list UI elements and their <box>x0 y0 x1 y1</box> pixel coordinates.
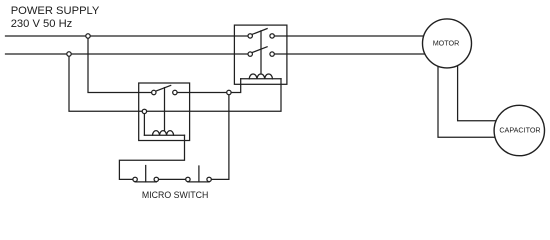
micro switch S1 contact bar <box>135 181 156 183</box>
svg-text:230 V 50 Hz: 230 V 50 Hz <box>11 18 73 30</box>
micro switch S1 plunger <box>145 166 147 182</box>
wire node J2 down, along and up to contactor K1 coil right terminal <box>69 54 281 111</box>
wire L2 neutral line right segment to motor <box>274 53 425 55</box>
contactor K1 coil baseline <box>241 78 281 80</box>
contactor K1 mechanical link <box>260 31 262 74</box>
wire between micro switch S1 and micro switch S2 <box>159 178 186 180</box>
motor M circle <box>423 19 472 68</box>
relay K2 coil baseline <box>144 134 184 136</box>
contactor K1 coil <box>249 74 272 79</box>
svg-text:CAPACITOR: CAPACITOR <box>499 126 540 135</box>
node J1 junction on L1 <box>86 34 90 38</box>
node J4 junction <box>142 109 146 113</box>
wire node J1 down and right to relay K2 contact left terminal <box>88 36 152 93</box>
node J2 junction on L2 <box>67 52 71 56</box>
wire motor to capacitor inner <box>458 66 496 121</box>
relay K2 box <box>139 83 190 141</box>
wire node J4 down to relay K2 coil left terminal <box>143 111 145 135</box>
wire L2 neutral line left segment <box>6 53 249 55</box>
micro switch S1 right terminal <box>154 177 158 181</box>
relay K2 contact left terminal <box>152 90 156 94</box>
relay K2 contact blade <box>156 85 171 91</box>
wire node J3 down to micro switch S2 right terminal <box>211 93 229 180</box>
svg-text:POWER SUPPLY: POWER SUPPLY <box>11 5 100 17</box>
micro switch S2 plunger <box>198 166 200 182</box>
wire motor to capacitor outer <box>438 66 496 137</box>
wire L1 phase line left segment <box>6 35 249 37</box>
contactor K1 contact 1 blade <box>252 29 267 35</box>
micro switch S2 right terminal <box>207 177 211 181</box>
contactor K1 contact 1 right terminal <box>270 34 274 38</box>
svg-text:MICRO SWITCH: MICRO SWITCH <box>142 190 208 200</box>
relay K2 contact right terminal <box>173 90 177 94</box>
capacitor C circle <box>494 105 544 155</box>
wire L1 phase line right segment to motor <box>274 35 423 37</box>
wire relay K2 contact right terminal to node J3 <box>177 92 229 94</box>
svg-text:MOTOR: MOTOR <box>433 39 460 48</box>
micro switch S2 contact bar <box>188 181 209 183</box>
contactor K1 box <box>234 25 287 84</box>
node J3 junction <box>227 90 231 94</box>
contactor K1 contact 2 right terminal <box>270 52 274 56</box>
relay K2 coil <box>153 131 174 136</box>
micro switch S1 left terminal <box>133 177 137 181</box>
micro switch S2 left terminal <box>186 177 190 181</box>
contactor K1 contact 2 blade <box>252 47 267 53</box>
contactor K1 contact 1 left terminal <box>248 34 252 38</box>
wire node J3 to contactor K1 coil left terminal <box>229 79 241 93</box>
wire relay K2 coil right terminal down and around to micro switch S1 left terminal <box>119 135 184 179</box>
relay K2 mechanical link <box>164 88 166 131</box>
contactor K1 contact 2 left terminal <box>248 52 252 56</box>
